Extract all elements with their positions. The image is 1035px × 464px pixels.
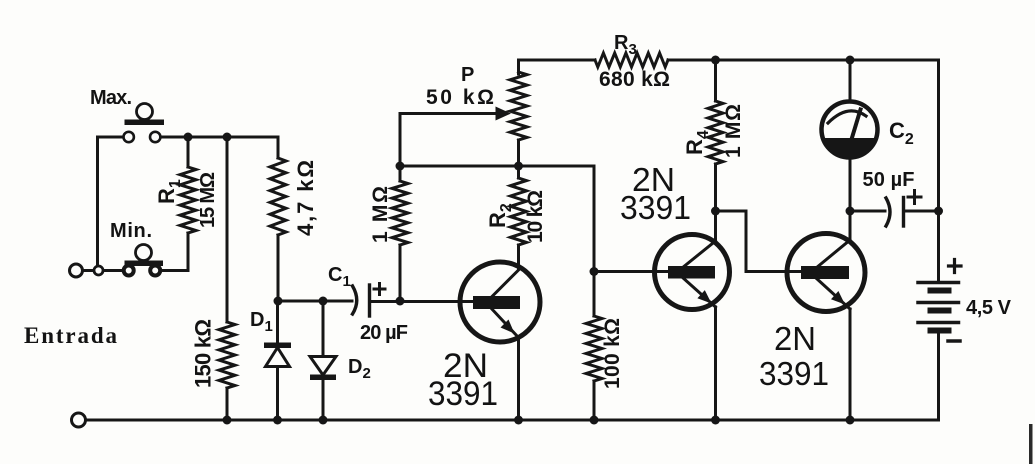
diode D2 bottom stem (322, 380, 325, 420)
wire Min switch to R1 bottom (161, 269, 189, 272)
transistor Q2 emitter arrowhead (697, 290, 711, 303)
svg-text:3391: 3391 (759, 355, 829, 392)
svg-text:150 kΩ: 150 kΩ (191, 319, 216, 388)
svg-text:Entrada: Entrada (24, 323, 118, 348)
switch Max right contact (150, 132, 160, 142)
node C2 right rail (934, 207, 943, 216)
meter M1 needle (851, 110, 861, 142)
svg-text:1 MΩ: 1 MΩ (722, 104, 745, 158)
wire 100k node to Q2 base (594, 270, 668, 273)
resistor 1 MOhm zigzag (392, 181, 408, 245)
svg-text:100 kΩ: 100 kΩ (601, 318, 624, 389)
wire 150k bottom lead (226, 388, 229, 420)
diode D2 cathode bar (310, 375, 336, 381)
switch Max button circle (137, 104, 153, 120)
diode D2 top stem (322, 301, 325, 357)
wire 150k top lead (226, 137, 229, 322)
battery B1 long plate 2 (918, 301, 959, 305)
node 150k top (223, 133, 232, 142)
node meter C2 Q3 collector (846, 207, 855, 216)
wire potentiometer wiper arm (400, 114, 497, 167)
wire Q2 collector lead (714, 211, 717, 241)
resistor R4 zigzag 1 MOhm (708, 101, 723, 164)
node R4 Q2 collector (711, 207, 720, 216)
node 4.7k C1 D1 junction (274, 297, 283, 306)
input terminal lower (72, 413, 86, 427)
svg-text:Max.: Max. (90, 87, 132, 109)
wire R1 top lead (187, 137, 190, 167)
node P R2 junction (514, 162, 523, 171)
wire Q3 emitter to bottom rail (849, 309, 852, 420)
transistor Q1 base bar (473, 296, 520, 309)
battery B1 minus sign (948, 339, 960, 343)
svg-text:50 µF: 50 µF (863, 169, 915, 191)
transistor Q3 collector line (816, 240, 850, 268)
resistor R3 zigzag 680 kOhm (595, 53, 668, 67)
svg-text:15 MΩ: 15 MΩ (197, 172, 219, 228)
node bottom rail 100k (590, 416, 599, 425)
capacitor C2 straight plate (902, 198, 905, 227)
wire C2 right lead (905, 210, 939, 213)
wire link Q2 collector node to Q3 base (716, 211, 803, 272)
transistor Q2 emitter line (682, 277, 716, 307)
wire top rail right segment down to battery positive (668, 60, 939, 281)
meter M1 scale arc (828, 111, 866, 123)
meter M1 circle (822, 102, 878, 158)
node D2 top (319, 297, 328, 306)
node bottom rail D2 (319, 416, 328, 425)
svg-text:4,5 V: 4,5 V (966, 297, 1012, 319)
svg-text:680 kΩ: 680 kΩ (599, 68, 670, 91)
switch Min bar (125, 261, 164, 267)
resistor R1 zigzag 15 MOhm (180, 167, 196, 233)
node meter top rail (846, 56, 855, 65)
node bottom rail Q2 emitter (711, 416, 720, 425)
node C1 output 1M bottom (396, 297, 405, 306)
transistor Q1 circle (460, 262, 540, 342)
wire upper input terminal to junction (83, 269, 94, 272)
wire 4.7k top lead (277, 137, 280, 158)
node bottom rail Q3 emitter (846, 416, 855, 425)
node wiper 1M top (396, 162, 405, 171)
diode D1 bottom stem (276, 367, 279, 421)
battery B1 short plate 1 (931, 288, 949, 294)
capacitor C1 straight plate (368, 285, 371, 316)
diode D2 triangle (310, 357, 336, 376)
svg-text:Min.: Min. (110, 220, 152, 242)
capacitor C1 curved plate (353, 286, 357, 314)
diode D1 triangle (266, 348, 290, 367)
svg-text:3391: 3391 (620, 189, 691, 226)
resistor R2 zigzag 10 kOhm (511, 178, 527, 245)
resistor 150 kOhm zigzag (219, 322, 235, 388)
wire 100k bottom lead (593, 381, 596, 420)
wire left vertical from switches (96, 137, 99, 271)
switch Max left contact (124, 132, 134, 142)
svg-text:4,7 kΩ: 4,7 kΩ (293, 160, 318, 236)
transistor Q3 base bar (801, 266, 849, 279)
wire 1M bottom lead (399, 245, 402, 301)
transistor Q3 emitter line (816, 278, 850, 309)
capacitor C2 curved plate (886, 198, 890, 226)
wire P bottom lead to R2 (517, 140, 520, 178)
svg-text:2N: 2N (774, 320, 816, 357)
transistor Q2 collector line (682, 241, 716, 268)
resistor 100 kOhm zigzag (586, 316, 602, 381)
wire top-left horizontal left segment (98, 136, 124, 139)
node bottom rail Q1 emitter (514, 416, 523, 425)
svg-text:10 kΩ: 10 kΩ (524, 190, 547, 243)
wire C2 left lead (850, 210, 885, 213)
node R1 top (184, 133, 193, 142)
switch Min button circle (136, 245, 152, 261)
wire meter top lead (849, 60, 852, 102)
battery B1 plus sign (949, 260, 962, 273)
svg-text:3391: 3391 (428, 375, 498, 413)
wire R2 bottom lead (517, 245, 520, 263)
capacitor C2 plus sign (908, 191, 921, 204)
wire meter bottom lead (849, 157, 852, 211)
junction terminal small circle (94, 266, 103, 275)
transistor Q3 emitter arrowhead (831, 291, 845, 305)
transistor Q1 collector line (490, 258, 519, 299)
wire 4.7k bottom lead (277, 235, 280, 301)
wire R1 bottom lead (187, 233, 190, 271)
node R4 top rail (711, 56, 720, 65)
scan artifact right edge (1029, 424, 1033, 464)
svg-text:1 MΩ: 1 MΩ (369, 186, 392, 243)
wiper arrowhead (496, 107, 512, 121)
transistor Q2 circle (655, 235, 730, 310)
wire top rail left segment with bend down to potentiometer P (519, 60, 596, 74)
svg-text:20 µF: 20 µF (360, 322, 408, 344)
wire top-left horizontal right segment (161, 136, 279, 139)
svg-text:P: P (461, 64, 474, 86)
switch Min right contact (150, 266, 160, 276)
wire junction row to 100k column (400, 166, 594, 316)
meter M1 dark sector (823, 138, 876, 158)
diode D1 top stem (276, 301, 279, 343)
wire Q2 emitter to bottom rail (714, 307, 717, 420)
capacitor C1 plus sign (374, 284, 385, 295)
wire C1 left lead (278, 300, 352, 303)
node bottom rail 150k (223, 416, 232, 425)
wire battery negative down and bottom rail (86, 333, 939, 420)
potentiometer P zigzag 50 kOhm (510, 72, 527, 140)
resistor 4.7 kOhm zigzag (270, 158, 286, 235)
transistor Q1 emitter arrowhead (501, 320, 515, 334)
switch Max bar (125, 120, 165, 126)
transistor Q2 base bar (668, 266, 715, 279)
battery B1 short plate 3 (931, 328, 949, 334)
battery B1 long plate 3 (918, 321, 959, 325)
wire Q1 emitter to bottom rail (517, 338, 520, 421)
wire 1M top lead from wiper junction (399, 166, 402, 181)
node 100k Q2 base junction (590, 267, 599, 276)
transistor Q3 circle (787, 234, 865, 312)
wire C1 right lead to Q1 base (371, 300, 475, 303)
diode D1 cathode bar (264, 343, 291, 349)
wire junction to Min switch (103, 269, 124, 272)
transistor Q1 emitter line (490, 307, 519, 338)
battery B1 short plate 2 (931, 308, 949, 314)
wire R4 top lead (714, 60, 717, 101)
wire Q3 collector lead (849, 211, 852, 241)
svg-text:50 kΩ: 50 kΩ (426, 86, 494, 109)
wire R4 bottom lead to collector node (714, 164, 717, 211)
node bottom rail D1 (273, 416, 282, 425)
battery B1 long plate 1 (918, 281, 959, 285)
switch Min left contact (124, 266, 134, 276)
input terminal upper (70, 264, 83, 277)
